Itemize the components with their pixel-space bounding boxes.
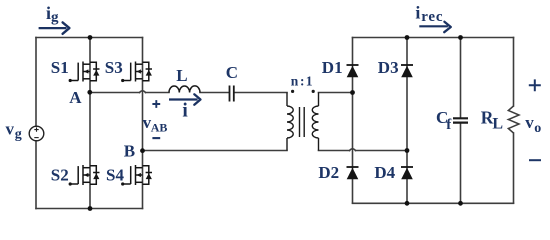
diode D3 (401, 65, 413, 77)
wire hop over D1-D2 leg (350, 149, 356, 151)
arrow i (tank current) (169, 94, 201, 104)
svg-text:i: i (415, 3, 420, 23)
svg-text:f: f (446, 117, 452, 133)
svg-text:B: B (124, 141, 135, 160)
wire leg1 S1-S2 (89, 38, 91, 209)
wire left rail upper (35, 38, 37, 127)
svg-text:S2: S2 (51, 165, 69, 184)
svg-text:S3: S3 (105, 58, 123, 77)
inductor L (169, 86, 200, 93)
transformer secondary winding (312, 93, 318, 151)
svg-text:n: n (291, 73, 299, 88)
capacitor Cf (453, 118, 468, 122)
wire top-left rail (36, 37, 143, 39)
svg-text:o: o (534, 121, 541, 136)
wire Cf leg upper (460, 38, 462, 118)
node top D3 (405, 35, 410, 40)
voltage source vg (29, 126, 44, 141)
diode D2 (347, 167, 359, 179)
label vo plus (529, 79, 541, 91)
label vAB plus (152, 100, 160, 108)
wire RL leg upper (513, 38, 515, 107)
svg-text:L: L (176, 66, 187, 85)
wire transformer secondary bottom to hop (319, 150, 350, 152)
node bottom D4 (405, 201, 410, 206)
diode D4 (401, 167, 413, 179)
capacitor C (230, 86, 234, 102)
node top leg1 (88, 35, 93, 40)
wire node A to L (90, 92, 140, 94)
wire hop over leg2 (140, 91, 146, 93)
node bottom Cf (458, 201, 463, 206)
svg-text:v: v (525, 113, 534, 132)
wire hop to D3-D4 leg (356, 150, 408, 152)
svg-text:g: g (15, 127, 22, 142)
arrow ig (39, 22, 70, 33)
svg-text:rec: rec (421, 9, 443, 25)
svg-text:S4: S4 (106, 165, 124, 184)
svg-text:i: i (182, 100, 188, 121)
svg-text:v: v (6, 120, 15, 139)
transformer primary winding (287, 93, 293, 151)
svg-text:A: A (69, 88, 82, 107)
svg-text:D4: D4 (374, 163, 395, 182)
svg-text:g: g (51, 10, 59, 26)
arrow irec (419, 22, 451, 33)
resistor RL (508, 106, 519, 133)
svg-text:S1: S1 (51, 58, 69, 77)
MOSFET S4 (121, 165, 152, 186)
node bottom leg1 (88, 206, 93, 211)
node secondary bottom (405, 148, 410, 153)
wire rectifier leg D3-D4 (406, 38, 408, 204)
wire Cf leg lower (460, 124, 462, 204)
wire bottom-right rail (353, 202, 514, 204)
polarity dot secondary (312, 90, 315, 93)
transformer core (300, 107, 305, 137)
MOSFET S1 (69, 62, 100, 83)
svg-text:L: L (492, 115, 503, 132)
svg-text:1: 1 (306, 73, 313, 88)
svg-text::: : (300, 73, 305, 88)
wire left rail lower (35, 141, 37, 209)
wire hop to inductor (146, 92, 170, 94)
wire transformer secondary top (319, 92, 353, 94)
node B (140, 148, 145, 153)
node A (87, 90, 92, 95)
polarity dot primary (291, 90, 294, 93)
svg-text:D1: D1 (322, 58, 343, 77)
wire leg2 S3-S4 (142, 38, 144, 209)
MOSFET S2 (69, 165, 100, 186)
wire rectifier leg D1-D2 (352, 38, 354, 204)
wire C to transformer primary (235, 92, 288, 94)
svg-text:D2: D2 (318, 163, 339, 182)
wire top-right rail (353, 37, 514, 39)
label vAB minus (152, 137, 160, 139)
wire RL leg lower (513, 133, 515, 203)
svg-text:AB: AB (151, 120, 168, 134)
diode D1 (347, 65, 359, 77)
svg-text:C: C (226, 63, 238, 82)
wire bottom-left rail (36, 208, 143, 210)
node secondary top (350, 90, 355, 95)
node top Cf (458, 35, 463, 40)
wire node B to transformer primary bottom (143, 150, 288, 152)
svg-text:D3: D3 (378, 58, 399, 77)
wire L to C (200, 92, 229, 94)
label vo minus (529, 159, 541, 161)
MOSFET S3 (121, 62, 152, 83)
